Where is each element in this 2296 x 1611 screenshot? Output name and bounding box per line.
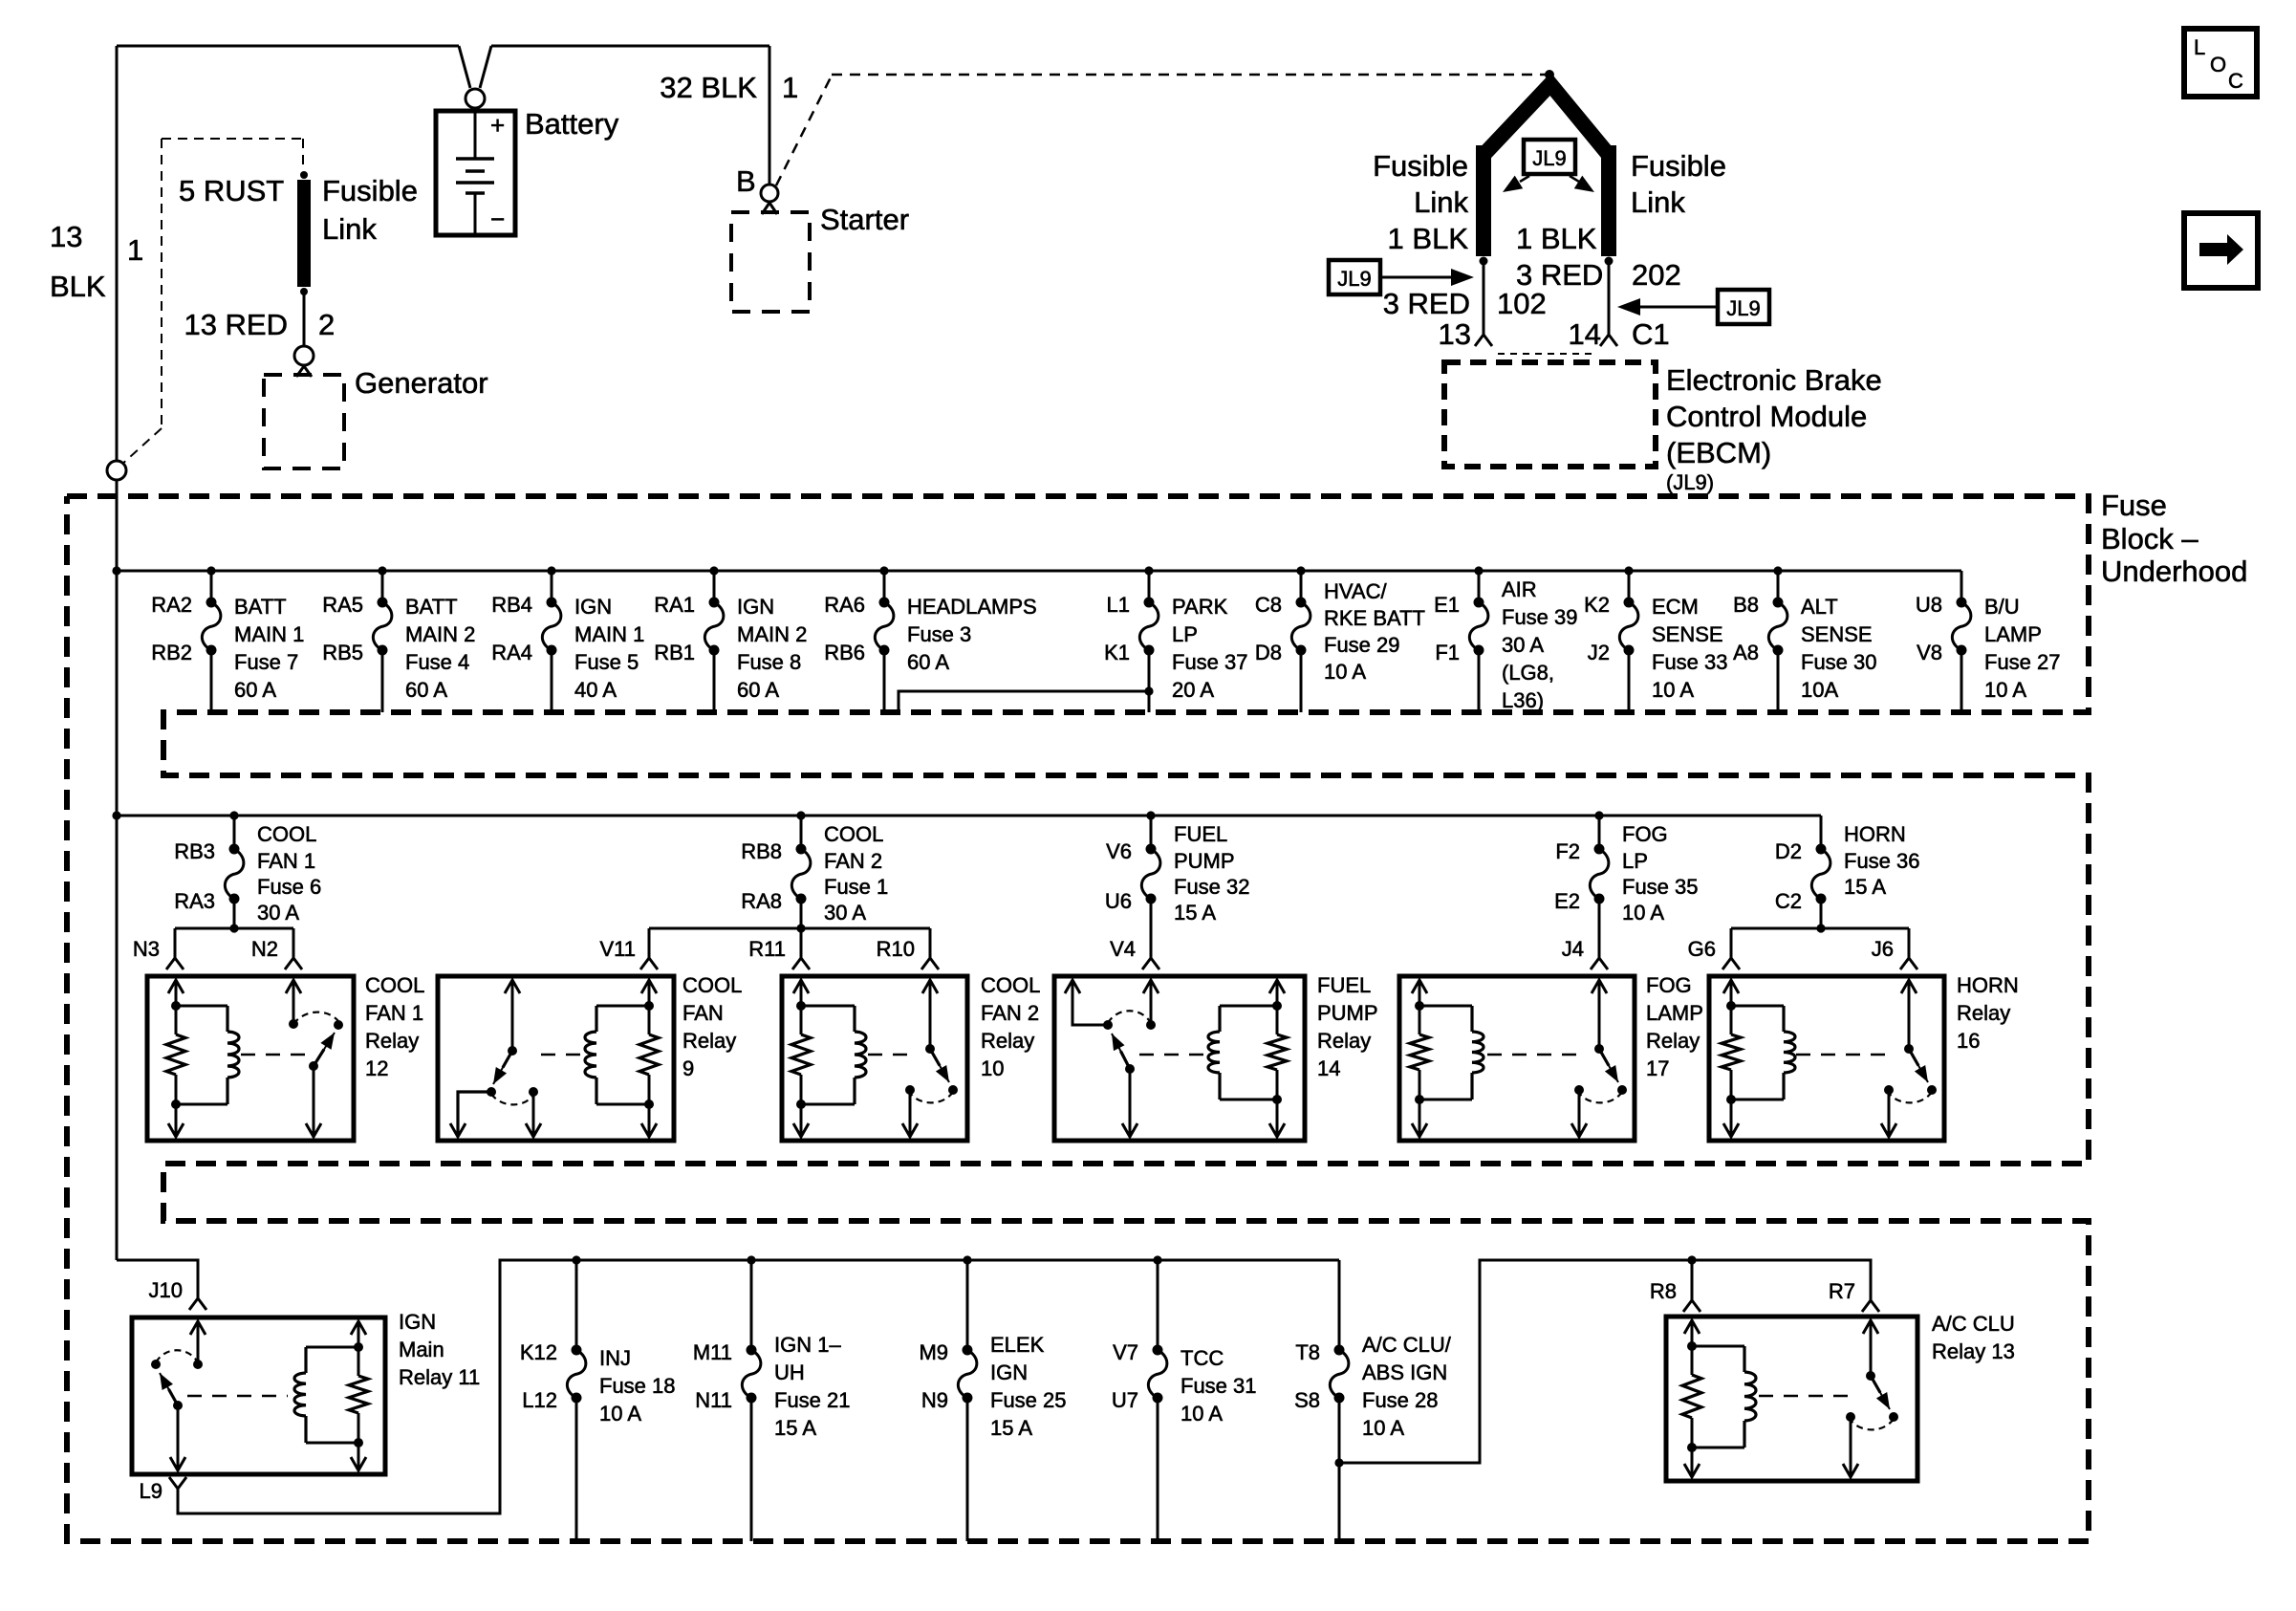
svg-text:Link: Link [1631,185,1685,219]
svg-text:RB2: RB2 [151,641,192,664]
svg-text:Fuse 3: Fuse 3 [907,622,971,646]
label Generator [355,366,488,400]
label JL9 (left) [1329,260,1380,294]
label terminal L9 [140,1479,162,1503]
svg-text:Fuse 18: Fuse 18 [599,1374,676,1398]
fuse F4 BATT MAIN 2 60A [373,571,392,712]
svg-text:Fuse 31: Fuse 31 [1180,1374,1257,1398]
label Fusible Link (right) [1631,149,1726,219]
svg-text:Fuse 28: Fuse 28 [1362,1388,1439,1412]
label pin K2 [1584,593,1610,617]
svg-text:D8: D8 [1255,641,1282,664]
svg-text:Fuse 35: Fuse 35 [1622,875,1699,899]
label fuse F39 AIR 30A name [1502,577,1578,712]
label pin E2 [1554,889,1580,913]
svg-text:Fusible: Fusible [1373,149,1468,183]
label terminal V4 [1110,937,1136,961]
svg-text:RA8: RA8 [741,889,782,913]
relay 11 switch [151,1321,206,1470]
junction relay13 bus at R8 [1687,1255,1696,1264]
svg-text:G6: G6 [1688,937,1716,961]
svg-text:S8: S8 [1294,1388,1320,1412]
relay 12 linkage [241,1054,308,1056]
svg-text:Relay: Relay [1957,1001,2010,1025]
svg-text:10 A: 10 A [1324,660,1366,684]
relay K14 FUEL PUMP Relay 14 [1054,976,1305,1141]
label pin A8 [1733,641,1759,664]
svg-text:10 A: 10 A [1180,1402,1223,1426]
svg-text:+: + [490,111,505,140]
svg-text:Fuse 30: Fuse 30 [1801,650,1877,674]
relay K16 HORN Relay 16 [1709,976,1944,1141]
wire 13 BLK (main vertical feed) [116,46,119,1260]
svg-text:FOG: FOG [1646,973,1692,997]
label pin K12 [520,1340,557,1364]
svg-text:Fuse 27: Fuse 27 [1984,650,2061,674]
junction bus row1 at x=400 [378,566,386,575]
relay K9 COOL FAN Relay 9 [438,976,674,1141]
relay 10 linkage [868,1054,908,1056]
svg-text:U6: U6 [1105,889,1132,913]
svg-text:J2: J2 [1588,641,1610,664]
svg-text:60 A: 60 A [737,678,779,702]
label 5 RUST [179,174,284,207]
relay 9 switch [450,980,541,1137]
relay 10 switch [902,980,958,1137]
wire dashed generator field tap (box outline) [120,139,303,466]
label pin L1 [1107,593,1130,617]
terminal EBCM pin 13 [1475,335,1492,346]
label Electronic Brake Control Module (EBCM) [1666,363,1882,494]
label pin RA1 [654,593,695,617]
svg-text:FAN 2: FAN 2 [981,1001,1039,1025]
node EBCM feed splice [1545,70,1554,79]
fuse F5 IGN MAIN 1 40A [542,571,561,712]
svg-text:RA1: RA1 [654,593,695,617]
svg-text:16: 16 [1957,1029,1980,1053]
svg-text:HORN: HORN [1844,822,1906,846]
relay 16 coil [1722,980,1795,1137]
svg-text:K2: K2 [1584,593,1610,617]
svg-text:ALT: ALT [1801,595,1838,619]
svg-text:Link: Link [1414,185,1468,219]
svg-text:B8: B8 [1733,593,1759,617]
junction fuse 1 output split [796,924,805,932]
svg-text:Fuse 37: Fuse 37 [1172,650,1248,674]
label Fusible Link 1 BLK (left) [1373,149,1468,255]
relay K12 COOL FAN 1 Relay 12 [147,976,354,1141]
wire 13 RED [303,292,306,346]
svg-text:15 A: 15 A [1844,875,1886,899]
svg-text:60 A: 60 A [234,678,276,702]
svg-text:JL9: JL9 [1532,146,1566,170]
relay 16 switch [1881,980,1937,1137]
relay 9 linkage [541,1054,585,1056]
svg-text:30 A: 30 A [257,901,299,925]
label pin L12 [522,1388,557,1412]
svg-text:FAN 1: FAN 1 [257,849,315,873]
label terminal R10 [877,937,915,961]
label pin RB2 [151,641,192,664]
svg-text:N3: N3 [133,937,160,961]
terminal J6 [1900,958,1917,969]
svg-text:Relay: Relay [682,1029,736,1053]
svg-text:102: 102 [1497,287,1547,320]
label pin F1 [1435,641,1460,664]
label pin J2 [1588,641,1610,664]
relay 12 coil [166,980,239,1137]
svg-text:COOL: COOL [824,822,883,846]
svg-text:Fuse: Fuse [2101,489,2167,522]
svg-text:13: 13 [50,220,82,253]
svg-text:Relay: Relay [365,1029,419,1053]
svg-text:COOL: COOL [981,973,1040,997]
label Fuse Block - Underhood [2101,489,2247,588]
svg-text:RA3: RA3 [174,889,215,913]
label pin D8 [1255,641,1282,664]
svg-text:FAN 2: FAN 2 [824,849,882,873]
svg-text:J6: J6 [1872,937,1894,961]
label pin RB3 [174,839,215,863]
label terminal R8 [1650,1279,1677,1303]
junction bus row2 at x=1204 [1146,811,1155,819]
label circuit 1 (32 BLK) [782,71,798,104]
label pin RB5 [322,641,363,664]
label terminal V11 [599,937,636,961]
label fuse F7 BATT MAIN 1 60A name [234,595,304,702]
arrow JL9 right pointer [1617,298,1718,316]
fuse F27 B/U LAMP 10A [1952,571,1971,712]
label relay 10 [981,973,1040,1080]
label pin RB8 [741,839,782,863]
svg-text:RB5: RB5 [322,641,363,664]
svg-text:Electronic Brake: Electronic Brake [1666,363,1882,397]
terminal R10 [921,958,939,969]
terminal R8 [1683,1300,1700,1312]
svg-text:COOL: COOL [682,973,742,997]
label pin RB1 [654,641,695,664]
label pin RA8 [741,889,782,913]
svg-text:5 RUST: 5 RUST [179,174,284,207]
label terminal R11 [748,937,786,961]
svg-text:RA2: RA2 [151,593,192,617]
fuse F7 BATT MAIN 1 60A [202,571,221,712]
svg-text:Underhood: Underhood [2101,555,2247,588]
relay 13 coil [1682,1320,1756,1477]
label relay 12 [365,973,424,1080]
junction bus row2 at x=1673 [1594,811,1603,819]
starter (dashed box) [731,203,810,312]
svg-text:N2: N2 [251,937,278,961]
svg-text:15 A: 15 A [774,1416,816,1440]
label relay 16 [1957,973,2019,1053]
fuse F18 INJ 10A [567,1260,586,1541]
wire 3 RED circuit 102 [1483,261,1485,335]
fuse block underhood (dashed outline) [67,496,2089,1541]
terminal EBCM pin 14 [1600,335,1617,346]
svg-text:MAIN 1: MAIN 1 [574,622,644,646]
svg-text:14: 14 [1569,317,1601,351]
label 102 [1497,287,1547,320]
svg-text:13: 13 [1439,317,1471,351]
svg-text:15 A: 15 A [990,1416,1032,1440]
svg-text:Fuse 8: Fuse 8 [737,650,801,674]
svg-text:Link: Link [322,212,377,246]
svg-text:3 RED: 3 RED [1516,258,1603,292]
label pin E1 [1434,593,1460,617]
label fuse F1 COOL FAN 2 30A name [824,822,888,925]
wire battery tap V-drop [459,46,491,88]
label pin C2 [1775,889,1802,913]
terminal J4 [1591,958,1608,969]
svg-text:IGN: IGN [737,595,774,619]
label pin U8 [1916,593,1942,617]
svg-text:C8: C8 [1255,593,1282,617]
svg-text:V6: V6 [1106,839,1132,863]
label fuse F36 name [1844,822,1920,899]
svg-text:3 RED: 3 RED [1383,287,1470,320]
svg-text:Fuse 25: Fuse 25 [990,1388,1067,1412]
svg-text:13 RED: 13 RED [184,308,288,341]
generator (dashed box) [264,366,344,468]
svg-text:JL9: JL9 [1337,267,1371,291]
terminal N2 [285,958,302,969]
svg-text:IGN: IGN [574,595,612,619]
svg-text:RA4: RA4 [491,641,532,664]
junction fuse 36 output split [1816,924,1825,932]
wire dashed starter to EBCM feed [776,75,1549,185]
label pin S8 [1294,1388,1320,1412]
junction bus row2 at x=838 [796,811,805,819]
label pin RA2 [151,593,192,617]
svg-text:R11: R11 [748,937,786,961]
svg-text:IGN 1–: IGN 1– [774,1333,841,1357]
label fuse F27 B/U LAMP 10A name [1984,595,2061,702]
relay K17 FOG LAMP Relay 17 [1399,976,1635,1141]
wire fuse28 output loop to relay13 bus [1339,1260,1871,1463]
svg-text:R7: R7 [1829,1279,1855,1303]
svg-text:V8: V8 [1917,641,1942,664]
label pin C8 [1255,593,1282,617]
svg-text:E1: E1 [1434,593,1460,617]
label relay 17 [1646,973,1703,1080]
svg-text:TCC: TCC [1180,1346,1224,1370]
fuse F29 HVAC/RKE BATT 10A [1291,571,1310,712]
relay K13 A/C CLU Relay 13 [1666,1317,1917,1481]
junction bus row2 at x=245 [229,811,238,819]
terminal L9 [169,1477,186,1489]
label fuse F21 IGN 1-UH 15A name [774,1333,851,1440]
terminal R11 [792,958,810,969]
svg-text:Main: Main [399,1338,444,1361]
fuse F35 FOG LP 10A [1590,816,1609,958]
svg-text:2: 2 [318,308,335,341]
battery B1 [436,111,515,235]
svg-text:1: 1 [127,233,143,267]
junction node main feed splice [107,461,126,480]
fuse F39 AIR 30A [1469,571,1488,712]
label pin RA4 [491,641,532,664]
fusible link left 1 BLK (roof+bar) [1484,84,1609,256]
label relay 9 [682,973,742,1080]
junction bus row1 at x=221 [206,566,215,575]
svg-text:E2: E2 [1554,889,1580,913]
svg-text:60 A: 60 A [907,650,949,674]
arrow JL9 left pointer [1382,269,1474,286]
fuse F36 HORN 15A [1811,816,1830,928]
label terminal G6 [1688,937,1716,961]
svg-text:ECM: ECM [1652,595,1699,619]
label pin V8 [1917,641,1942,664]
svg-text:SENSE: SENSE [1801,622,1873,646]
svg-text:LP: LP [1622,849,1648,873]
relay 16 linkage [1796,1054,1887,1056]
relay 17 coil [1410,980,1484,1137]
svg-text:RKE BATT: RKE BATT [1324,606,1425,630]
svg-text:IGN: IGN [990,1361,1028,1384]
fuse F8 IGN MAIN 2 60A [704,571,724,712]
svg-text:Relay 11: Relay 11 [399,1365,480,1389]
fuse F21 IGN 1-UH 15A [742,1260,761,1541]
svg-text:AIR: AIR [1502,577,1537,601]
label relay 13 [1932,1312,2015,1363]
label terminal J6 [1872,937,1894,961]
svg-text:K1: K1 [1104,641,1130,664]
label pin T8 [1295,1340,1320,1364]
label fuse F29 HVAC/RKE BATT 10A name [1324,579,1425,684]
label relay 14 [1317,973,1378,1080]
wire fuse36 to relay16 terminals [1731,928,1909,958]
fuse F33 ECM SENSE 10A [1619,571,1638,712]
label terminal C1 [1632,317,1670,351]
wire main vertical to J10 [117,1260,198,1298]
svg-text:Fuse 4: Fuse 4 [405,650,469,674]
svg-text:Generator: Generator [355,366,488,400]
svg-text:60 A: 60 A [405,678,447,702]
relay 13 linkage [1759,1395,1849,1398]
label fuse F4 BATT MAIN 2 60A name [405,595,475,702]
junction bus row3 at x=1211 [1153,1255,1161,1264]
wire 32 BLK to starter [769,46,771,184]
svg-text:14: 14 [1317,1056,1340,1080]
relay K11 IGN Main Relay 11 [132,1317,385,1474]
svg-text:L1: L1 [1107,593,1130,617]
svg-text:10 A: 10 A [1622,901,1664,925]
svg-text:RB1: RB1 [654,641,695,664]
svg-text:HEADLAMPS: HEADLAMPS [907,595,1037,619]
svg-text:N9: N9 [921,1388,948,1412]
svg-text:1 BLK: 1 BLK [1388,222,1469,255]
svg-text:1 BLK: 1 BLK [1516,222,1597,255]
svg-text:PARK: PARK [1172,595,1228,619]
junction bus row1 at x=1547 [1474,566,1483,575]
svg-text:C2: C2 [1775,889,1802,913]
svg-text:1: 1 [782,71,798,104]
label terminal J4 [1562,937,1584,961]
svg-text:Fuse 5: Fuse 5 [574,650,639,674]
terminal V11 [640,958,658,969]
label relay 11 [399,1310,480,1389]
svg-text:17: 17 [1646,1056,1669,1080]
label fuse F33 ECM SENSE 10A name [1652,595,1728,702]
label JL9 (right) [1718,290,1769,324]
relay 17 switch [1571,980,1627,1137]
arrow JL9 to right link [1570,176,1594,192]
symbol LOC reference box [2184,29,2257,97]
terminal G6 [1722,958,1740,969]
label pin N9 [921,1388,948,1412]
svg-text:Relay: Relay [981,1029,1034,1053]
svg-text:LAMP: LAMP [1984,622,2042,646]
svg-text:Fuse 1: Fuse 1 [824,875,888,899]
svg-text:Fuse 36: Fuse 36 [1844,849,1920,873]
label Battery [525,107,619,141]
svg-text:A8: A8 [1733,641,1759,664]
svg-text:15 A: 15 A [1174,901,1216,925]
svg-text:RA6: RA6 [824,593,865,617]
fuse F30 ALT SENSE 10A [1768,571,1787,712]
svg-text:Fuse 39: Fuse 39 [1502,605,1578,629]
junction bus row3 at x=786 [747,1255,755,1264]
label pin V6 [1106,839,1132,863]
label terminal J10 [149,1278,183,1302]
junction bus row1 / main vertical [112,566,120,575]
svg-text:HVAC/: HVAC/ [1324,579,1387,603]
label fuse F25 ELEK IGN 15A name [990,1333,1067,1440]
EBCM (dashed box) [1444,362,1656,467]
svg-text:BATT: BATT [234,595,287,619]
svg-text:Relay: Relay [1646,1029,1700,1053]
svg-text:RB8: RB8 [741,839,782,863]
svg-text:Fusible: Fusible [322,174,418,207]
label fuse F35 FOG LP 10A name [1622,822,1699,925]
label circuit 1 (13 BLK) [127,233,143,267]
label pin V7 [1113,1340,1138,1364]
svg-text:L9: L9 [140,1479,162,1503]
svg-text:A/C CLU: A/C CLU [1932,1312,2015,1336]
label 13 BLK [50,220,106,303]
svg-text:O: O [2210,53,2226,76]
junction bus row1 at x=1704 [1624,566,1633,575]
svg-text:LP: LP [1172,622,1198,646]
svg-text:Block –: Block – [2101,522,2199,555]
label 202 [1632,258,1681,292]
wire R8 stub [1691,1260,1694,1300]
label JL9 (middle) [1524,140,1575,174]
label fuse F31 TCC 10A name [1180,1346,1257,1426]
svg-text:10 A: 10 A [1984,678,2026,702]
fuse F28 A/C CLU ABS IGN 10A [1330,1260,1349,1541]
svg-text:PUMP: PUMP [1174,849,1235,873]
svg-text:J10: J10 [149,1278,183,1302]
svg-text:10 A: 10 A [1362,1416,1404,1440]
svg-text:UH: UH [774,1361,805,1384]
svg-text:T8: T8 [1295,1340,1320,1364]
label fuse F3 HEADLAMPS 60A name [907,595,1037,674]
svg-text:9: 9 [682,1056,694,1080]
svg-text:PUMP: PUMP [1317,1001,1378,1025]
svg-text:Fuse 33: Fuse 33 [1652,650,1728,674]
label circuit 2 (13 RED) [318,308,335,341]
label pin RB6 [824,641,865,664]
fuse F6 COOL FAN 1 30A [225,816,244,928]
label terminal N3 [133,937,160,961]
label fuse F8 IGN MAIN 2 60A name [737,595,807,702]
label terminal B [736,164,756,198]
svg-text:10 A: 10 A [1652,678,1694,702]
svg-text:SENSE: SENSE [1652,622,1723,646]
terminal N3 [166,958,184,969]
